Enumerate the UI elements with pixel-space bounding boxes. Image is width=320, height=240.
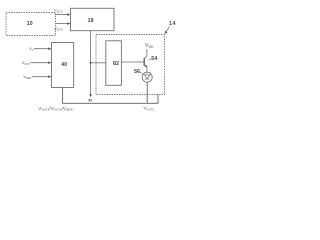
wire Vout arrow	[31, 62, 50, 64]
wire block 40 bottom rail	[63, 88, 158, 104]
svg-text:18: 18	[87, 18, 93, 24]
wire from block 18 down	[90, 31, 92, 96]
wire Vref arrow	[32, 76, 50, 78]
wire VF arrow	[34, 48, 50, 50]
svg-text:50: 50	[88, 99, 92, 103]
transistor Q 54	[121, 61, 144, 63]
block 18 (top box)	[71, 8, 115, 30]
wire arrowhead at node 50	[89, 94, 92, 97]
wire junction to block 82	[91, 62, 106, 64]
svg-text:40: 40	[61, 62, 67, 68]
svg-text:56: 56	[134, 69, 140, 75]
node junction dot	[90, 62, 92, 64]
wire Vout2 arrow	[55, 23, 68, 25]
block 40 (left box)	[52, 43, 74, 88]
svg-text:14: 14	[169, 21, 177, 27]
block 82 (inner box)	[106, 41, 122, 86]
block 10 (dashed box, top-left)	[6, 13, 56, 36]
svg-text:82: 82	[113, 61, 119, 67]
wire VDD to transistor	[146, 49, 148, 55]
wire transistor to LED	[146, 67, 148, 72]
LED D 56	[142, 72, 152, 82]
svg-text:54: 54	[151, 56, 158, 62]
wire LED to rail	[146, 82, 148, 103]
wire Vout1 arrow	[55, 14, 68, 16]
svg-text:10: 10	[27, 21, 33, 27]
block 14 (dashed box, right)	[96, 35, 165, 95]
